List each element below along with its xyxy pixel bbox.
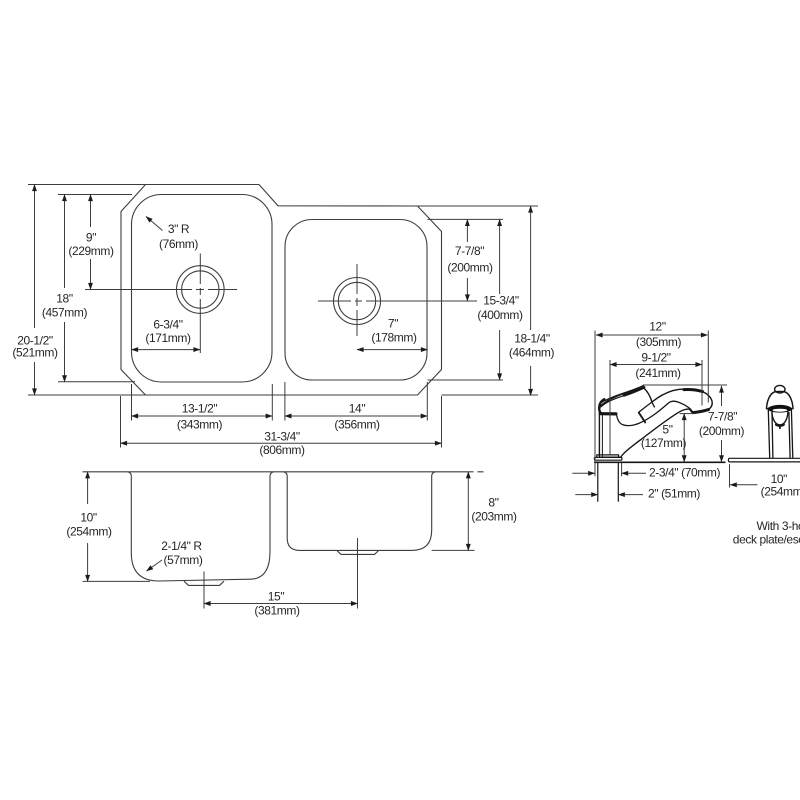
- body joint dark stripe: [600, 412, 616, 415]
- svg-text:deck plate/escut: deck plate/escut: [733, 533, 800, 547]
- svg-text:With 3-hol: With 3-hol: [757, 519, 800, 533]
- svg-text:5": 5": [662, 423, 672, 437]
- bell dark band: [767, 405, 793, 413]
- svg-text:(76mm): (76mm): [159, 237, 198, 251]
- right drain vertical centerline: [356, 264, 358, 336]
- svg-text:7-7/8": 7-7/8": [708, 410, 737, 424]
- svg-text:(305mm): (305mm): [636, 335, 682, 349]
- svg-text:14": 14": [349, 401, 366, 415]
- head outlet dark tick: [690, 410, 693, 413]
- right bowl profile: [283, 472, 436, 551]
- svg-text:7": 7": [388, 317, 398, 331]
- svg-text:8": 8": [488, 496, 498, 510]
- svg-text:2" (51mm): 2" (51mm): [648, 487, 700, 501]
- spray head small tick: [779, 427, 781, 429]
- dim 12 line: [596, 334, 708, 336]
- dim 20-1/2 vertical line: [34, 185, 36, 329]
- svg-text:13-1/2": 13-1/2": [182, 401, 218, 415]
- right bowl: [285, 220, 427, 381]
- svg-text:15-3/4": 15-3/4": [483, 294, 519, 308]
- spray head front: [772, 412, 788, 426]
- svg-text:2-3/4" (70mm): 2-3/4" (70mm): [649, 466, 720, 480]
- extension line bowl-top left: [58, 194, 132, 196]
- deck line: [595, 461, 725, 463]
- bell body: [767, 391, 794, 408]
- 2-1/4 R leader arrow: [147, 560, 163, 571]
- dim 5 extension: [680, 413, 694, 415]
- svg-text:(200mm): (200mm): [447, 261, 493, 275]
- dim 15 line: [204, 603, 358, 605]
- svg-text:(381mm): (381mm): [254, 604, 300, 618]
- extension line right-bowl-bottom right: [428, 379, 504, 381]
- svg-text:(806mm): (806mm): [259, 443, 305, 457]
- svg-text:(356mm): (356mm): [334, 418, 380, 432]
- extension line below sink-right: [441, 396, 443, 448]
- faucet top extension line: [643, 384, 727, 386]
- extension line below right-bowl-right: [426, 382, 428, 421]
- dim 7-7/8 plan vertical line: [466, 219, 468, 242]
- front column inner line: [601, 415, 603, 458]
- rim line: [83, 471, 484, 473]
- dim 9-1/2 line: [610, 364, 702, 366]
- 3R leader arrow: [146, 217, 163, 231]
- svg-text:7-7/8": 7-7/8": [455, 244, 484, 258]
- svg-text:10": 10": [80, 511, 97, 525]
- faucet shank below deck: [598, 463, 619, 501]
- extension line bottom-right: [442, 394, 539, 396]
- dim 12 extension left: [594, 331, 596, 477]
- extension line bowl-bottom left: [58, 381, 135, 383]
- right bowl drain bump: [337, 551, 379, 555]
- left drain inner circle: [182, 271, 219, 308]
- dim 10 line: [87, 472, 89, 504]
- extension line top-left: [28, 184, 146, 186]
- svg-text:(521mm): (521mm): [12, 346, 58, 360]
- handle blade dark underside: [624, 387, 644, 395]
- extension right-bowl-bottom section: [432, 549, 475, 551]
- dim 12 extension right: [707, 331, 709, 403]
- right drain inner circle: [338, 282, 375, 319]
- svg-text:6-3/4": 6-3/4": [153, 318, 182, 332]
- dim 18-1/4 line: [530, 206, 532, 330]
- svg-text:31-3/4": 31-3/4": [264, 430, 300, 444]
- section right drain centerline: [357, 538, 359, 609]
- extension line right-bowl-top right: [428, 218, 504, 220]
- head bottom dark band: [693, 410, 709, 413]
- dim 31-3/4 line: [121, 442, 442, 444]
- handle cap dark nose: [599, 399, 604, 413]
- svg-text:(241mm): (241mm): [635, 366, 681, 380]
- body legs front view: [768, 410, 793, 458]
- left drain horizontal centerline: [85, 289, 237, 291]
- sink outer outline (chamfered corners, stepped top): [121, 185, 442, 396]
- extension line below sink-left: [120, 396, 122, 448]
- spout joint tick: [639, 413, 645, 423]
- dim 15-3/4 line: [499, 219, 501, 294]
- svg-text:(254mm): (254mm): [66, 525, 112, 539]
- dim 18 vertical line: [64, 195, 66, 289]
- dim 10 front extension: [729, 464, 731, 487]
- svg-text:(203mm): (203mm): [471, 510, 517, 524]
- svg-text:(127mm): (127mm): [641, 436, 687, 450]
- svg-text:18-1/4": 18-1/4": [514, 332, 550, 346]
- dim 9-1/2 extension right: [701, 360, 703, 406]
- deck plate front view: [728, 458, 800, 462]
- head top dark band: [684, 389, 703, 391]
- left drain outer circle: [177, 266, 225, 314]
- extension line top-right: [418, 205, 539, 207]
- svg-text:(400mm): (400mm): [477, 308, 523, 322]
- right drain outer circle: [334, 278, 381, 325]
- knob ring: [775, 385, 785, 393]
- svg-text:2-1/4" R: 2-1/4" R: [161, 539, 202, 553]
- spout pocket curve: [616, 401, 690, 425]
- extension line bottom-left: [28, 394, 146, 396]
- faucet body and spout: [599, 388, 712, 457]
- left bowl drain bump: [184, 581, 224, 585]
- section left drain centerline: [203, 572, 205, 609]
- dim 9-1/2 extension left: [609, 360, 611, 455]
- dim 2-3/4 extension right stub: [621, 463, 623, 476]
- left drain vertical centerline: [199, 254, 201, 354]
- bell band inner white: [773, 409, 788, 412]
- dim 10 front line: [730, 484, 757, 486]
- svg-text:12": 12": [649, 320, 666, 334]
- svg-text:(457mm): (457mm): [42, 306, 88, 320]
- svg-text:15": 15": [268, 590, 285, 604]
- svg-text:(229mm): (229mm): [68, 244, 114, 258]
- dim 7 line: [357, 349, 428, 351]
- left bowl: [132, 195, 273, 383]
- dim 6-3/4 line: [132, 349, 201, 351]
- svg-text:(343mm): (343mm): [177, 418, 223, 432]
- extension line below left-bowl-right: [271, 384, 273, 421]
- svg-text:18": 18": [56, 292, 73, 306]
- svg-text:3" R: 3" R: [168, 222, 190, 236]
- dim 2 line: [575, 494, 598, 496]
- svg-text:(254mm): (254mm): [761, 485, 800, 499]
- svg-text:(178mm): (178mm): [371, 331, 417, 345]
- svg-text:(171mm): (171mm): [145, 331, 191, 345]
- spray head dark bottom arc: [776, 423, 783, 427]
- right drain horizontal centerline: [318, 300, 477, 302]
- left bowl profile: [127, 472, 274, 581]
- svg-text:9": 9": [86, 231, 96, 245]
- dim 14 line: [285, 415, 427, 417]
- svg-text:(464mm): (464mm): [509, 346, 555, 360]
- svg-text:(200mm): (200mm): [699, 424, 745, 438]
- dim 7-7/8 faucet line: [721, 386, 723, 406]
- spout top inner curve: [639, 402, 655, 412]
- dim 9 vertical line: [90, 195, 92, 228]
- extension line below right-bowl-left: [284, 382, 286, 421]
- extension line below left-bowl-left: [131, 384, 133, 421]
- dim 5 line: [683, 414, 685, 462]
- svg-text:9-1/2": 9-1/2": [641, 351, 670, 365]
- faucet base plate: [594, 455, 622, 460]
- handle blade: [600, 386, 644, 407]
- dim 2-3/4 line: [572, 472, 594, 474]
- svg-text:(57mm): (57mm): [164, 553, 203, 567]
- dim 8 line: [467, 472, 469, 551]
- extension bowl-bottom left section: [83, 580, 151, 582]
- dim 13-1/2 line: [132, 415, 273, 417]
